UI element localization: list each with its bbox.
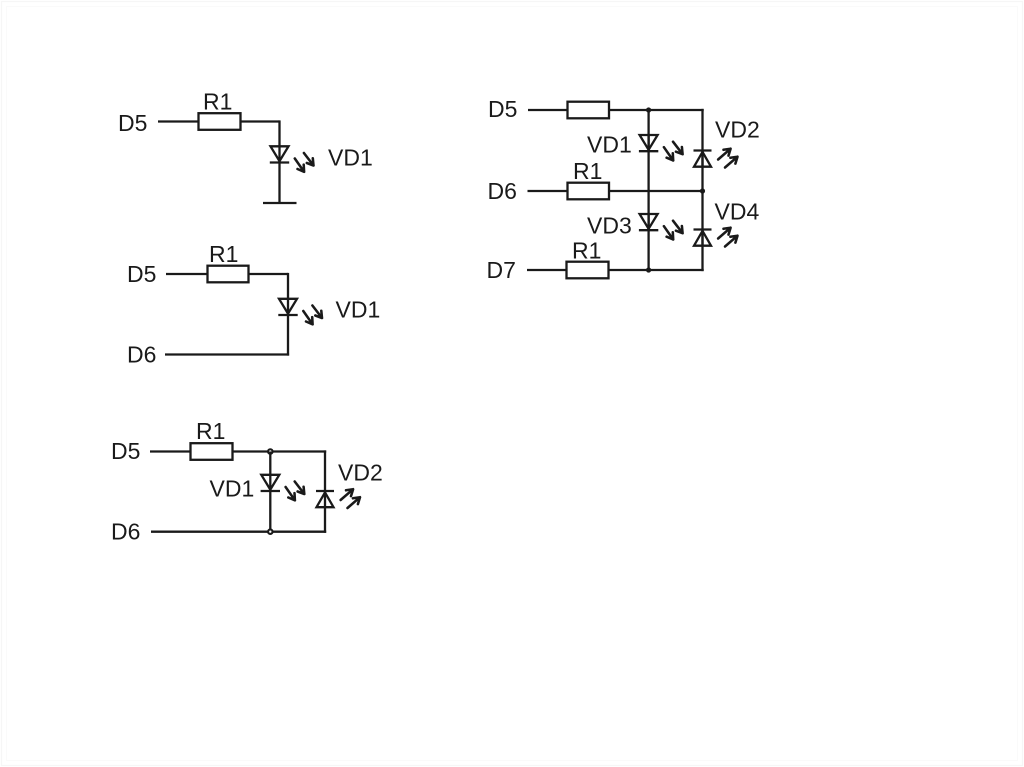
- svg-text:D5: D5: [488, 96, 517, 122]
- LED VD2 light arrows (circuit 3): [341, 489, 360, 508]
- wire D6 rail (circuit 3): [151, 531, 326, 533]
- node D7 (circuit 4): [487, 257, 516, 283]
- resistor R1 on D6 rail (circuit 4): [568, 183, 610, 200]
- label R1 (circuit 1): [203, 89, 232, 115]
- LED VD3 (circuit 4): [639, 214, 658, 230]
- LED VD1 light arrows (circuit 3): [286, 482, 305, 501]
- svg-text:VD3: VD3: [587, 213, 632, 239]
- label VD2 (circuit 4): [715, 117, 760, 143]
- junction dot D7 rail / VD3 branch (circuit 4): [646, 267, 651, 272]
- label VD4 (circuit 4): [715, 199, 760, 225]
- svg-text:D5: D5: [111, 438, 140, 464]
- junction node at VD1 cathode on D6 rail (circuit 3): [268, 529, 273, 534]
- LED VD1 (circuit 1): [270, 146, 289, 162]
- label R1 (circuit 3): [196, 418, 225, 444]
- svg-text:VD1: VD1: [328, 145, 373, 171]
- wire corner down to VD1 anode (circuit 1): [278, 120, 280, 147]
- wire D6 rail (circuit 2): [165, 353, 289, 355]
- LED VD1 light arrows (circuit 4): [664, 142, 683, 161]
- wire R1 to VD2 branch corner (circuit 3): [233, 450, 327, 452]
- label VD1 (circuit 4): [587, 132, 632, 158]
- label VD1 (circuit 3): [210, 476, 255, 502]
- node D6 (circuit 3): [111, 519, 140, 545]
- junction node at VD1 anode (circuit 3): [268, 449, 273, 454]
- LED VD1 light arrows (circuit 1): [295, 153, 314, 172]
- svg-text:R1: R1: [203, 89, 232, 115]
- LED VD1 (circuit 3): [261, 475, 280, 491]
- svg-text:VD2: VD2: [338, 460, 383, 486]
- svg-text:VD1: VD1: [210, 476, 255, 502]
- svg-text:D5: D5: [127, 261, 156, 287]
- wire D7 to resistor (circuit 4): [527, 269, 567, 271]
- resistor on D5 rail (circuit 4): [568, 102, 610, 119]
- wire D5 rail to right branch (circuit 4): [609, 109, 704, 111]
- label VD2 (circuit 3): [338, 460, 383, 486]
- label R1 on D6 rail (circuit 4): [573, 158, 602, 184]
- wire left vertical D6 to D7 (circuit 4): [647, 191, 649, 270]
- resistor R1 (circuit 2): [208, 266, 249, 283]
- wire D5 to resistor (circuit 4): [528, 109, 568, 111]
- label VD1 (circuit 1): [328, 145, 373, 171]
- resistor R1 (circuit 1): [199, 113, 241, 130]
- LED VD2 light arrows (circuit 4): [718, 149, 737, 168]
- svg-text:VD4: VD4: [715, 199, 760, 225]
- svg-text:R1: R1: [196, 418, 225, 444]
- svg-text:D6: D6: [488, 178, 517, 204]
- node D5 (circuit 4): [488, 96, 517, 122]
- resistor R1 (circuit 3): [191, 443, 233, 460]
- svg-text:VD1: VD1: [336, 297, 381, 323]
- wire corner down to VD1 anode (circuit 2): [287, 273, 289, 300]
- node D5 (circuit 1): [118, 110, 147, 136]
- svg-text:VD1: VD1: [587, 132, 632, 158]
- junction dot D6 rail / VD2 branch (circuit 4): [700, 188, 705, 193]
- wire VD2 cathode down to D6 rail (circuit 3): [324, 507, 326, 533]
- wire D5 to R1 (circuit 2): [166, 273, 208, 275]
- svg-text:R1: R1: [573, 158, 602, 184]
- wire D5 to R1 (circuit 1): [158, 120, 199, 122]
- LED VD1 (circuit 4): [639, 135, 658, 151]
- svg-text:R1: R1: [572, 238, 601, 264]
- wire right vertical D5 to D6 (circuit 4): [701, 109, 703, 191]
- svg-text:R1: R1: [209, 241, 238, 267]
- label R1 on D7 rail (circuit 4): [572, 238, 601, 264]
- label R1 (circuit 2): [209, 241, 238, 267]
- LED VD4 light arrows (circuit 4): [718, 228, 737, 247]
- wire R1 to corner (circuit 2): [249, 273, 289, 275]
- LED VD2 (circuit 3): [316, 491, 334, 507]
- wire right vertical D6 to D7 (circuit 4): [701, 191, 703, 271]
- wire D5 to R1 (circuit 3): [150, 450, 191, 452]
- LED VD1 light arrows (circuit 2): [303, 306, 322, 325]
- wire VD2 branch vertical upper (circuit 3): [324, 450, 326, 491]
- wire D7 rail to right vertical (circuit 4): [609, 269, 704, 271]
- node D5 (circuit 2): [127, 261, 156, 287]
- wire VD1 cathode down to D6 rail (circuit 2): [287, 315, 289, 356]
- wire D6 rail to right vertical (circuit 4): [609, 190, 703, 192]
- LED VD3 light arrows (circuit 4): [664, 221, 683, 240]
- wire left vertical D5 to D6 (circuit 4): [647, 110, 649, 191]
- wire R1 to corner (circuit 1): [241, 120, 280, 122]
- node D5 (circuit 3): [111, 438, 140, 464]
- wire D6 to resistor (circuit 4): [528, 190, 568, 192]
- node D6 (circuit 2): [127, 342, 156, 368]
- resistor R1 on D7 rail (circuit 4): [567, 262, 609, 279]
- svg-text:VD2: VD2: [715, 117, 760, 143]
- svg-text:D6: D6: [111, 519, 140, 545]
- svg-text:D6: D6: [127, 342, 156, 368]
- node D6 (circuit 4): [488, 178, 517, 204]
- LED VD4 (circuit 4): [694, 230, 712, 246]
- svg-text:D7: D7: [487, 257, 516, 283]
- label VD3 (circuit 4): [587, 213, 632, 239]
- wire VD1 branch vertical upper (circuit 3): [269, 452, 271, 476]
- ground (circuit 1): [263, 202, 297, 204]
- svg-text:D5: D5: [118, 110, 147, 136]
- junction dot D5 rail / VD1 branch (circuit 4): [646, 107, 651, 112]
- LED VD2 (circuit 4): [694, 151, 712, 167]
- wire VD1 cathode to ground (circuit 1): [278, 162, 280, 203]
- label VD1 (circuit 2): [336, 297, 381, 323]
- LED VD1 (circuit 2): [278, 299, 297, 315]
- wire VD1 cathode down to D6 rail (circuit 3): [269, 491, 271, 532]
